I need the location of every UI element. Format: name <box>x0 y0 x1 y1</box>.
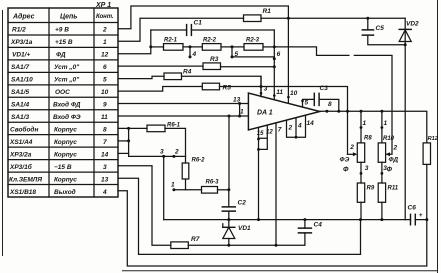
svg-text:Вход ФЭ: Вход ФЭ <box>53 113 81 121</box>
svg-text:1: 1 <box>171 182 175 189</box>
svg-text:Выход: Выход <box>54 188 76 196</box>
connector table XP1 frame <box>8 8 118 197</box>
svg-text:R3: R3 <box>210 56 219 63</box>
wire node3 down to mid rail <box>163 156 165 219</box>
node junction chain start <box>149 45 152 48</box>
svg-text:+15 В: +15 В <box>55 39 73 46</box>
svg-text:15: 15 <box>257 131 264 137</box>
svg-text:6: 6 <box>103 64 107 71</box>
mid rail (common) <box>164 219 427 221</box>
svg-text:2: 2 <box>102 27 107 34</box>
svg-text:Свободн: Свободн <box>10 126 38 134</box>
svg-text:R2-3: R2-3 <box>246 38 260 44</box>
svg-text:VD1: VD1 <box>238 225 251 232</box>
svg-text:3: 3 <box>103 164 107 171</box>
svg-text:R6-1: R6-1 <box>167 123 181 129</box>
wire Vyhod pin4 row down to rail B <box>118 191 427 266</box>
svg-text:XS1/В18: XS1/В18 <box>9 189 36 196</box>
svg-text:3: 3 <box>365 165 369 172</box>
DA1 pin5 stub and capacitor C3 <box>303 99 339 111</box>
svg-text:2: 2 <box>349 144 354 151</box>
node junction C3 right to output <box>337 110 340 113</box>
node junction R1/+9V <box>287 17 290 20</box>
node 1 of R6 <box>172 188 175 191</box>
svg-text:14: 14 <box>101 152 109 159</box>
svg-text:−15 В: −15 В <box>54 164 72 171</box>
resistor R6-3 <box>202 187 218 194</box>
node 2 of R6 <box>172 155 175 158</box>
DA1 pin7 bottom <box>275 123 277 245</box>
svg-text:R4: R4 <box>183 69 192 76</box>
svg-text:ХР3/2а: ХР3/2а <box>9 152 32 159</box>
potentiometer R8 <box>360 111 362 183</box>
resistor R11 <box>378 183 385 202</box>
resistor R6-2 (vertical) <box>185 156 187 163</box>
svg-text:Корпус: Корпус <box>54 152 77 159</box>
DA1 pin15 bottom to rail <box>258 128 260 220</box>
svg-text:10: 10 <box>101 89 109 96</box>
svg-text:ООС: ООС <box>55 89 70 96</box>
resistor R2-2 <box>202 44 221 51</box>
table column Цепь <box>53 27 81 196</box>
capacitor C6 <box>411 214 416 224</box>
wire +15V net: pin1 row up to rail y18.2 <box>118 18 244 41</box>
svg-text:8: 8 <box>328 101 332 108</box>
svg-text:12: 12 <box>101 52 109 59</box>
capacitor C5 <box>368 18 405 45</box>
table column Конт <box>101 27 109 196</box>
svg-text:С2: С2 <box>238 200 247 207</box>
wire rail 18.2 from R1 to VD2 <box>261 17 405 19</box>
svg-text:+: + <box>419 212 423 219</box>
svg-text:14: 14 <box>307 120 315 127</box>
op-amp DA1 <box>248 93 319 130</box>
resistor R1 <box>244 15 262 22</box>
svg-text:SA1/4: SA1/4 <box>11 102 29 109</box>
svg-text:R9: R9 <box>367 186 375 192</box>
wire node1 line <box>174 189 202 191</box>
svg-text:8: 8 <box>103 127 107 134</box>
svg-text:Адрес: Адрес <box>12 13 35 21</box>
wire R6-1 right lead down <box>165 128 186 156</box>
resistor R9 <box>357 183 364 202</box>
svg-text:Корпус: Корпус <box>54 127 77 134</box>
svg-text:R12: R12 <box>428 136 439 142</box>
wire Korpus bundle vertical <box>129 128 164 156</box>
wire R6-3 to C2 top <box>218 189 229 191</box>
DA1 pin4 bottom <box>295 118 297 137</box>
node junction VD1 bottom <box>227 244 230 247</box>
wire Korpus pin13 row down to rail Q <box>118 178 361 254</box>
svg-text:R5: R5 <box>223 85 232 92</box>
svg-text:1: 1 <box>363 120 367 127</box>
wire R3 to node6 vertical <box>221 66 275 68</box>
svg-text:10: 10 <box>290 90 298 97</box>
wire R5 feedback line to output <box>220 87 348 155</box>
wire Korpus pin14 row stub <box>118 152 129 154</box>
svg-text:SA1/10: SA1/10 <box>11 77 33 84</box>
svg-text:Ф: Ф <box>343 167 349 174</box>
node junction pin3/R5 <box>260 85 263 88</box>
svg-text:3: 3 <box>264 86 268 93</box>
DA1 pin12 bottom <box>259 125 268 149</box>
table column Адрес <box>9 27 42 196</box>
svg-text:2: 2 <box>393 144 398 151</box>
wire Ust0' pin5 row to R4 <box>118 76 164 78</box>
svg-text:R6-3: R6-3 <box>206 180 220 186</box>
resistor R6-1 <box>147 125 165 132</box>
svg-text:Уст „0": Уст „0" <box>54 64 80 71</box>
wire R4 to DA1 pin3 <box>182 76 262 96</box>
svg-text:Кл.ЗЕМЛЯ: Кл.ЗЕМЛЯ <box>9 176 42 183</box>
diode VD1 (zener) <box>228 220 230 246</box>
svg-text:6: 6 <box>277 51 281 58</box>
wire chain end to node 6 <box>263 46 274 48</box>
svg-text:9: 9 <box>103 102 107 109</box>
svg-text:XS1/А4: XS1/А4 <box>9 139 33 146</box>
svg-text:3: 3 <box>160 149 164 156</box>
wire Korpus pin8 row to R6-1 <box>118 127 147 129</box>
wire FD step line from node6 to R10 wiper <box>274 47 392 154</box>
svg-text:DA 1: DA 1 <box>257 110 273 117</box>
wire OOC pin10 row to R5 <box>118 87 202 92</box>
svg-text:13: 13 <box>233 97 241 104</box>
node junction R10 pin1 <box>380 110 383 113</box>
wire chain segment <box>183 46 202 48</box>
DA1 pin3 top <box>260 76 262 96</box>
node 5 tap <box>231 45 234 48</box>
resistor R2-1 <box>164 44 184 51</box>
node 8 output tap <box>325 110 328 113</box>
wire Ust0 pin6 row to R3 <box>118 65 203 67</box>
svg-text:2: 2 <box>174 149 179 156</box>
node junction feedback/wiper leg <box>346 110 349 113</box>
svg-text:R1: R1 <box>263 8 272 15</box>
svg-text:С4: С4 <box>314 222 323 229</box>
svg-text:12: 12 <box>266 130 273 136</box>
DA1 pin14 bottom <box>296 115 306 137</box>
resistor R3 <box>203 63 221 70</box>
resistor R5 <box>202 83 219 90</box>
svg-text:ФЭ: ФЭ <box>340 157 350 164</box>
svg-text:С6: С6 <box>408 205 417 212</box>
svg-text:5: 5 <box>305 100 309 107</box>
wire -15V pin3 row down to R7 line <box>118 166 171 245</box>
svg-text:С5: С5 <box>376 25 385 32</box>
svg-text:Цепь: Цепь <box>60 14 77 21</box>
svg-text:4: 4 <box>297 123 302 130</box>
svg-text:Ф: Ф <box>387 167 393 174</box>
svg-text:R2-1: R2-1 <box>164 38 178 44</box>
svg-text:1: 1 <box>103 39 107 46</box>
svg-text:+9 В: +9 В <box>55 27 69 34</box>
wire link pin13-pin1 wires <box>239 104 241 117</box>
svg-text:R6-2: R6-2 <box>192 158 206 164</box>
wire pin1-net down to R6-3/C2 <box>228 116 230 190</box>
svg-text:R10: R10 <box>383 136 395 142</box>
svg-text:1: 1 <box>240 109 244 116</box>
wire R7 line to VD1, pin7, C4 <box>188 244 305 246</box>
svg-text:Уст „0": Уст „0" <box>54 77 80 84</box>
node 3 of R6 <box>162 155 165 158</box>
svg-text:VD1/+: VD1/+ <box>12 52 30 59</box>
capacitor C2 <box>228 190 230 220</box>
node junction R8 pin1 <box>360 110 363 113</box>
svg-text:ХР3/1а: ХР3/1а <box>10 39 33 46</box>
node 4 tap <box>189 45 192 48</box>
wire Vhod FE pin11 row to DA1 pin1 <box>118 115 248 117</box>
frame left border <box>2 10 4 256</box>
wire FD net: pin12 row to R2 chain start <box>118 30 151 54</box>
potentiometer R10 <box>381 111 383 183</box>
DA1 pin10 top <box>287 18 289 103</box>
svg-text:ФД: ФД <box>389 157 399 164</box>
svg-text:SA1/5: SA1/5 <box>11 89 29 96</box>
R8 wiper arrowhead <box>353 152 357 156</box>
svg-text:11: 11 <box>101 114 108 121</box>
node junction DA1 pin7 bottom <box>275 244 278 247</box>
svg-text:7: 7 <box>278 127 282 134</box>
node 6 junction <box>273 45 276 48</box>
resistor R4 <box>164 73 182 80</box>
svg-text:4: 4 <box>102 189 107 196</box>
svg-text:С1: С1 <box>194 20 203 27</box>
wire node6/pin11 vertical <box>273 30 275 100</box>
svg-text:4: 4 <box>192 51 197 58</box>
wire Vhod FD pin9 row to DA1 pin13 <box>118 103 248 105</box>
svg-text:SA1/7: SA1/7 <box>11 64 29 71</box>
DA1 pin2 bottom <box>287 120 297 137</box>
svg-text:11: 11 <box>276 89 283 96</box>
svg-text:5: 5 <box>103 77 107 84</box>
svg-text:С3: С3 <box>320 85 329 92</box>
svg-text:Вход ФД: Вход ФД <box>53 101 81 109</box>
svg-text:SA1/3: SA1/3 <box>11 114 29 121</box>
svg-text:VD2: VD2 <box>406 21 419 28</box>
svg-text:2: 2 <box>288 125 293 132</box>
wire R2 chain line <box>151 46 164 48</box>
svg-text:R2-2: R2-2 <box>203 38 217 44</box>
svg-text:R11: R11 <box>388 186 399 192</box>
resistor R2-3 <box>244 44 263 51</box>
resistor R7 <box>171 242 189 249</box>
wire +9V net: pin2 row to top rail and down to R1 right junction <box>118 6 288 29</box>
svg-text:Корпус: Корпус <box>54 176 77 183</box>
resistor R12 <box>423 143 430 165</box>
svg-text:R8: R8 <box>364 136 372 142</box>
wire chain segment <box>221 46 244 48</box>
svg-text:R1/2: R1/2 <box>12 27 26 34</box>
capacitor C4 <box>303 218 306 221</box>
wire node5-node6 link <box>232 56 274 58</box>
svg-text:Конт.: Конт. <box>96 14 114 20</box>
wire Korpus pin7 row stub <box>118 140 129 142</box>
frame right border <box>437 0 439 273</box>
svg-text:Корпус: Корпус <box>54 139 77 146</box>
wire DA1 output line <box>320 111 427 143</box>
svg-text:R7: R7 <box>191 236 200 243</box>
capacitor C1 <box>151 29 274 31</box>
node junction C2/VD1 on mid rail <box>227 218 230 221</box>
svg-text:ХР3/1б: ХР3/1б <box>9 163 33 171</box>
R10 wiper arrowhead <box>386 152 390 156</box>
frame bottom border <box>122 270 438 272</box>
svg-text:13: 13 <box>101 176 109 183</box>
node junction VD2/C5 bottom <box>404 43 407 46</box>
node junction C5 top <box>366 17 369 20</box>
svg-text:7: 7 <box>103 139 107 146</box>
svg-text:1: 1 <box>384 120 388 127</box>
wire node3-node2 line to R6-2 top <box>164 155 186 157</box>
svg-text:ФД: ФД <box>56 52 66 59</box>
diode VD2 (zener) <box>404 18 406 219</box>
